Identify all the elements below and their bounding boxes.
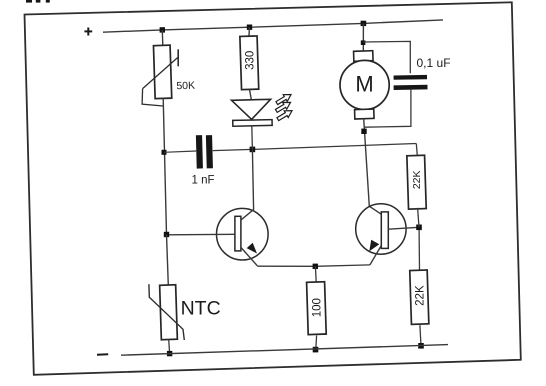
wire 1nF row right	[213, 144, 416, 151]
node junction rail/motor	[361, 21, 367, 26]
resistor R2 330 body	[240, 36, 259, 90]
wire rail to 330	[248, 27, 250, 36]
node junction rail/330	[247, 25, 252, 30]
node junction 50K/1nF row	[162, 150, 167, 155]
wire 50K bottom to base junction	[163, 98, 166, 234]
node junction motor/cap branch	[361, 40, 366, 45]
wire emitter row	[257, 265, 370, 266]
transistor Q1 emitter arrow	[247, 243, 257, 254]
wire Q1 base	[167, 233, 236, 236]
wire NTC branch	[167, 235, 169, 286]
wire emitter junction to 100	[314, 266, 317, 282]
wire wiper to lower terminal	[142, 89, 163, 106]
node + (positive supply label)	[84, 28, 92, 36]
capacitor C2 0.1uF plates	[394, 75, 428, 90]
node junction LED/collector row	[250, 147, 256, 153]
wire cap top branch	[363, 41, 410, 73]
node junction Q2 base/22K	[416, 225, 422, 231]
transistor Q2 emitter arrow	[369, 240, 379, 252]
LED D1 cathode bar	[233, 120, 272, 127]
transistor Q2 base bar	[381, 212, 388, 249]
svg-text:50K: 50K	[176, 80, 195, 93]
wire row to 22K top	[416, 144, 417, 156]
capacitor C1 1nF plates	[196, 135, 213, 168]
LED D1 triangle	[232, 99, 271, 119]
node junction rail/100	[313, 347, 319, 353]
transistor Q1 base bar	[235, 216, 241, 251]
wire rail to 50K top	[161, 30, 164, 46]
wire Q2 base	[388, 227, 419, 229]
svg-text:330: 330	[244, 51, 256, 70]
node junction emitter row/100	[313, 264, 318, 269]
wire Q2 emitter	[370, 246, 381, 265]
wire 1nF row left	[164, 151, 196, 152]
node junction base row/50K wire	[164, 232, 169, 237]
wire motor bottom to Q2 collector	[364, 119, 382, 215]
node junction motor/cap/collector	[361, 129, 366, 134]
wire base junction to 22K bottom	[418, 230, 420, 271]
thermistor NTC diagonal mark	[149, 284, 184, 340]
node junction rail/22K	[418, 343, 424, 349]
svg-text:NTC: NTC	[181, 297, 221, 319]
wire LED to junction	[251, 126, 254, 149]
wire Q1 collector	[241, 149, 254, 220]
svg-text:0,1 uF: 0,1 uF	[417, 56, 451, 70]
transistor Q2 circle	[356, 204, 406, 254]
svg-text:22K: 22K	[414, 285, 426, 306]
wire top supply rail	[103, 20, 443, 32]
wire rail to motor	[362, 23, 364, 51]
motor M1 body	[340, 60, 389, 109]
svg-text:M: M	[355, 72, 373, 97]
wire Q1 emitter	[241, 248, 257, 266]
svg-text:100: 100	[312, 298, 324, 317]
wire 22K to base junction	[418, 208, 419, 228]
svg-text:22K: 22K	[411, 170, 423, 189]
thermistor NTC body	[160, 285, 178, 340]
resistor R3 22K body	[407, 155, 426, 209]
wire bottom ground rail	[121, 345, 448, 356]
potentiometer R1 wiper arrow	[143, 49, 179, 88]
resistor R4 22K body	[410, 270, 429, 324]
wire 22K to ground rail	[420, 325, 421, 346]
node - (negative supply label)	[97, 353, 108, 356]
LED light emission arrows	[274, 91, 294, 122]
transistor Q1 circle	[217, 208, 269, 260]
wire 100 to ground rail	[315, 336, 318, 350]
motor M1 top terminal	[354, 51, 374, 62]
node junction rail/NTC	[167, 351, 172, 356]
resistor R5 100 body	[307, 282, 327, 335]
wire NTC to ground rail	[168, 340, 171, 354]
svg-text:1 nF: 1 nF	[192, 175, 215, 187]
wire 330 to LED	[250, 89, 252, 100]
wire cap bottom branch	[364, 89, 411, 127]
top edge cut-off print marks	[26, 0, 50, 3]
potentiometer R1 50K body	[153, 45, 171, 98]
node junction rail/50K	[160, 27, 165, 32]
motor M1 bottom terminal	[355, 109, 374, 119]
